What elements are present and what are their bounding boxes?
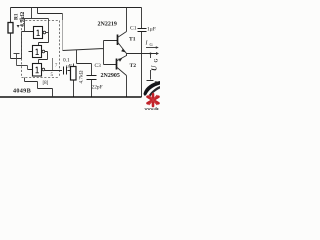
wire U1a out to U1b — [39, 33, 49, 46]
wire collector T2 to rail — [126, 76, 128, 98]
watermark small top text — [155, 80, 160, 85]
label 22pF — [92, 85, 103, 91]
wire VDD subrail — [38, 8, 63, 14]
wire UG stub — [147, 54, 154, 81]
wire collector T1 — [126, 8, 128, 32]
svg-text:Bc: Bc — [155, 80, 160, 85]
svg-text:T1: T1 — [129, 37, 136, 43]
label pin 8 — [43, 81, 49, 86]
svg-text:22pF: 22pF — [92, 85, 103, 91]
node A arrow — [17, 25, 20, 28]
wire riser pin1 — [31, 8, 33, 19]
resistor R1 — [10, 8, 12, 59]
wire pin8 VSS — [25, 78, 53, 98]
label R1 — [14, 13, 20, 20]
watermark logo swoosh — [144, 81, 161, 96]
pin 7 label — [55, 63, 58, 68]
label 4.7k — [20, 12, 26, 27]
label T1 — [129, 37, 136, 43]
svg-text:1μF: 1μF — [147, 27, 156, 33]
label C1 — [130, 26, 137, 32]
svg-text:G: G — [155, 59, 160, 63]
capacitor C3 — [87, 76, 97, 80]
label 2N2905 — [101, 73, 120, 79]
IG arrow — [146, 47, 157, 49]
label R2 value — [79, 70, 85, 83]
watermark text — [145, 106, 159, 111]
node input branch — [14, 54, 33, 70]
wire U1b out to U1c — [39, 52, 48, 64]
inverter U1b — [33, 46, 42, 58]
wire base main — [63, 41, 118, 65]
wire top rail — [11, 7, 142, 9]
wire emitter junction and output — [127, 54, 157, 57]
label 0.1uF — [63, 58, 72, 70]
svg-text:2N2219: 2N2219 — [98, 22, 117, 28]
label UG rotated — [150, 59, 160, 72]
node output dot — [150, 53, 152, 55]
wire R1 to input node — [11, 32, 34, 59]
svg-text:C1: C1 — [130, 26, 137, 32]
pin 5 label — [51, 73, 54, 78]
wire feedback U1a — [22, 19, 49, 33]
svg-text:www.dz: www.dz — [145, 106, 159, 110]
svg-text:2N2905: 2N2905 — [101, 73, 120, 79]
label 4049B — [13, 88, 31, 95]
resistor R2 — [74, 50, 77, 97]
capacitor C1 — [141, 8, 143, 98]
label IG — [145, 41, 154, 48]
watermark logo red star — [148, 94, 159, 106]
transistor T1 — [117, 35, 119, 46]
svg-text:4.7kΩ: 4.7kΩ — [79, 70, 85, 83]
label C3 — [95, 63, 102, 69]
IC 4049B dashed box — [22, 21, 60, 78]
label T2 — [130, 63, 137, 69]
wire C3 tap — [77, 64, 92, 76]
wire subrail dropper — [62, 14, 64, 21]
inverter U1c — [33, 64, 42, 77]
capacitor C2 0.1uF — [45, 70, 71, 72]
svg-text:C3: C3 — [95, 63, 102, 69]
wire stub — [52, 58, 54, 70]
svg-text:[8]: [8] — [43, 81, 49, 86]
svg-text:T2: T2 — [130, 63, 137, 69]
label 1uF — [147, 27, 156, 33]
inverter U1a — [34, 27, 43, 39]
svg-text:R1: R1 — [14, 13, 20, 20]
svg-text:4049B: 4049B — [13, 88, 31, 95]
transistor T2 — [116, 59, 118, 70]
label 2N2219 — [98, 22, 117, 28]
wire bottom rail — [0, 96, 142, 98]
